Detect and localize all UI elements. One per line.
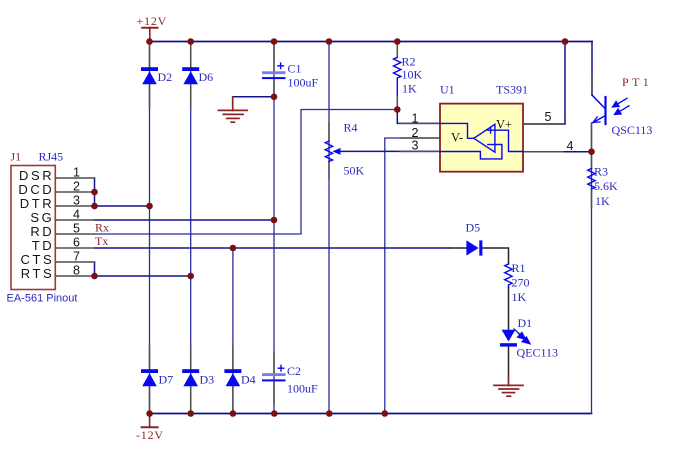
- resistor R3: [588, 168, 595, 189]
- resistor R3 pins: [591, 154, 593, 169]
- svg-text:R4: R4: [344, 121, 358, 135]
- wire top +12V rail: [150, 41, 593, 43]
- svg-text:C1: C1: [288, 62, 302, 76]
- svg-text:R3: R3: [594, 165, 608, 179]
- svg-text:50K: 50K: [344, 164, 365, 178]
- svg-text:DSR: DSR: [19, 168, 54, 183]
- svg-text:SG: SG: [30, 210, 54, 225]
- svg-text:3: 3: [412, 139, 419, 153]
- svg-text:TD: TD: [32, 238, 55, 253]
- wire C1/C2 column (SG net): [273, 42, 275, 414]
- wire CTS/RTS tie: [95, 262, 191, 276]
- svg-text:D1: D1: [518, 316, 533, 330]
- connector J1 RJ45 box: [11, 166, 55, 290]
- potentiometer R4: [325, 141, 332, 162]
- capacitor C2: [262, 365, 286, 381]
- svg-text:D3: D3: [200, 373, 215, 387]
- svg-text:D4: D4: [241, 373, 256, 387]
- wire TD row to D5: [95, 247, 450, 249]
- wire SG row to C column: [95, 219, 275, 221]
- svg-text:D2: D2: [158, 70, 173, 84]
- svg-text:CTS: CTS: [20, 252, 54, 267]
- wire R4 column: [328, 42, 330, 414]
- diode D3 pins: [190, 346, 192, 370]
- svg-text:8: 8: [73, 264, 80, 278]
- ground (below D1): [494, 377, 523, 397]
- wire D2/D7 column (DTR net): [149, 42, 151, 414]
- svg-text:PT1: PT1: [622, 75, 652, 89]
- diode D7 pins: [149, 346, 151, 370]
- svg-text:2: 2: [73, 180, 80, 194]
- resistor R2 pins: [396, 44, 398, 58]
- svg-text:4: 4: [73, 208, 80, 222]
- resistor R1: [505, 264, 512, 287]
- svg-text:D5: D5: [466, 221, 481, 235]
- svg-text:+12V: +12V: [137, 14, 168, 28]
- op-amp U1 body: [440, 104, 523, 172]
- svg-text:1K: 1K: [595, 194, 610, 208]
- wire U1 pin4 to PT1 emitter node: [523, 151, 592, 153]
- LED D1 emission arrows: [514, 329, 530, 344]
- diode D6 pins: [190, 44, 192, 68]
- connector pin names: [18, 168, 54, 281]
- diode D6: [182, 67, 199, 84]
- wire PT1 collector from rail: [591, 42, 593, 96]
- svg-text:D7: D7: [159, 373, 174, 387]
- capacitor C1: [262, 63, 286, 79]
- svg-text:TS391: TS391: [496, 83, 528, 97]
- diode D2 pins: [149, 44, 151, 68]
- U1 pin stubs: [400, 122, 440, 124]
- diode D5: [466, 240, 482, 255]
- svg-text:1: 1: [73, 166, 80, 180]
- diode D3: [182, 369, 199, 386]
- diode D4: [224, 369, 241, 386]
- svg-text:100uF: 100uF: [288, 76, 319, 90]
- potentiometer R4 wiper arrow: [333, 148, 341, 155]
- power port +12V: [142, 28, 157, 42]
- wire DSR/DCD/DTR tie: [95, 178, 150, 206]
- svg-text:U1: U1: [440, 83, 455, 97]
- capacitor C2 pins: [273, 352, 275, 373]
- ground (near C1): [218, 97, 247, 122]
- svg-text:270: 270: [512, 276, 530, 290]
- wire bottom -12V rail: [150, 413, 592, 415]
- svg-text:R2: R2: [402, 55, 416, 69]
- svg-text:C2: C2: [287, 364, 301, 378]
- capacitor C1 pins: [273, 44, 275, 72]
- wire D5 output chain (black): [449, 248, 509, 377]
- svg-text:10K: 10K: [402, 68, 423, 82]
- svg-text:5: 5: [545, 110, 552, 124]
- diode D7: [141, 369, 158, 386]
- wire D4 column (TD net): [232, 248, 234, 414]
- svg-text:V-: V-: [451, 131, 463, 145]
- PT1 light arrows: [613, 98, 630, 114]
- wire R4 wiper to U1 pin3: [336, 150, 440, 152]
- wire PT1 emitter to R3 to bottom rail: [591, 123, 593, 414]
- svg-text:7: 7: [73, 250, 80, 264]
- LED D1: [500, 330, 517, 347]
- power port -12V: [142, 414, 158, 428]
- svg-text:R1: R1: [512, 261, 526, 275]
- resistor R2: [394, 57, 401, 94]
- wire U1 pin5 to +12V rail: [523, 42, 565, 125]
- wire C1 bottom to ground: [233, 96, 274, 98]
- wire RD net vertical and horizontals: [95, 110, 398, 235]
- svg-text:Rx: Rx: [95, 221, 109, 235]
- svg-text:1K: 1K: [512, 290, 527, 304]
- svg-text:5: 5: [73, 222, 80, 236]
- svg-text:100uF: 100uF: [287, 382, 318, 396]
- wire U1 pin2 to -12V rail: [385, 138, 440, 414]
- svg-text:3: 3: [73, 194, 80, 208]
- svg-text:DTR: DTR: [20, 196, 55, 211]
- connector pin numbers 1-8: [73, 166, 80, 278]
- potentiometer R4 pins: [328, 123, 330, 141]
- svg-text:RJ45: RJ45: [39, 150, 64, 164]
- svg-text:RD: RD: [30, 224, 54, 239]
- PT1 collector pin: [591, 75, 593, 95]
- diode D4 pins: [232, 346, 234, 370]
- transistor PT1: [592, 95, 606, 124]
- svg-text:Tx: Tx: [95, 234, 108, 248]
- svg-text:6: 6: [73, 236, 80, 250]
- connector J1 pin stubs: [55, 178, 94, 276]
- op-amp U1 internal symbol: [440, 123, 523, 158]
- wire D6/D3 column (RTS net): [190, 42, 192, 414]
- diode D2: [141, 67, 158, 84]
- svg-text:RTS: RTS: [21, 266, 55, 281]
- svg-text:4: 4: [567, 139, 574, 153]
- svg-text:5.6K: 5.6K: [594, 179, 618, 193]
- svg-text:QEC113: QEC113: [517, 346, 559, 360]
- svg-text:J1: J1: [11, 150, 22, 164]
- component pin stubs gray: [150, 44, 593, 412]
- svg-text:D6: D6: [199, 70, 214, 84]
- svg-text:-12V: -12V: [136, 428, 164, 442]
- svg-text:EA-561 Pinout: EA-561 Pinout: [7, 293, 78, 305]
- svg-text:DCD: DCD: [18, 182, 54, 197]
- svg-text:1: 1: [412, 112, 419, 126]
- PT1 emitter pin: [591, 123, 593, 150]
- svg-text:V+: V+: [496, 118, 512, 132]
- wire R2 bottom to U1 pin1: [397, 110, 440, 124]
- svg-text:QSC113: QSC113: [612, 123, 653, 137]
- svg-text:1K: 1K: [402, 82, 417, 96]
